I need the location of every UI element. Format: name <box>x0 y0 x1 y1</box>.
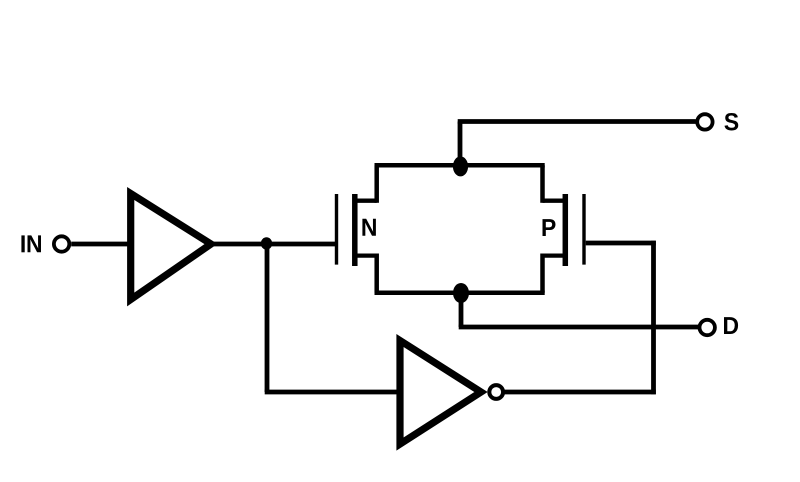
wire U1 output to N gate <box>214 242 337 247</box>
transistor P (PMOS) channel bar <box>563 194 569 266</box>
junction node D-rail <box>453 283 469 303</box>
label D <box>724 317 738 334</box>
wire up to P gate lead <box>651 241 656 395</box>
transistor P source lead (top) <box>543 199 565 203</box>
wire bottom rail (drain side) <box>375 290 545 295</box>
buffer U1 (non-inverting driver triangle) <box>131 194 211 300</box>
terminal D (open circle) <box>700 320 715 335</box>
wire top rail (source side) <box>375 163 545 168</box>
wire to U2 input <box>265 390 400 395</box>
label N <box>362 219 375 236</box>
wire P drain down to bottom rail <box>540 254 545 293</box>
label IN <box>21 235 24 252</box>
wire to D terminal <box>459 325 699 330</box>
wire P source up to top rail <box>540 165 545 203</box>
transistor P drain lead (bottom) <box>543 253 565 257</box>
terminal IN (open circle) <box>54 236 69 251</box>
transistor N source lead (bottom) <box>356 253 377 257</box>
wire IN terminal to buffer U1 input <box>71 242 131 247</box>
wire U2 output to P gate vertical <box>503 390 656 395</box>
wire N source down to bottom rail <box>374 254 379 293</box>
junction node S-rail <box>453 156 468 176</box>
wire P gate lead <box>586 241 656 246</box>
terminal S (open circle) <box>697 114 712 129</box>
transistor N channel bar <box>352 194 358 266</box>
transistor N (NMOS) gate bar <box>335 194 338 265</box>
inverter U2 triangle <box>400 341 481 445</box>
transistor P gate bar <box>582 194 585 265</box>
wire N drain up to top rail <box>374 165 379 203</box>
wire D-rail junction down <box>459 291 464 327</box>
inverter U2 output bubble <box>489 385 503 399</box>
label P <box>543 219 556 236</box>
wire to S terminal <box>458 119 696 124</box>
label S <box>725 113 739 130</box>
wire node A down to inverter U2 input <box>265 242 270 392</box>
junction node A (U1 output) <box>261 237 272 249</box>
wire S-rail junction up <box>458 122 463 169</box>
transistor N drain lead (top) <box>356 199 377 203</box>
